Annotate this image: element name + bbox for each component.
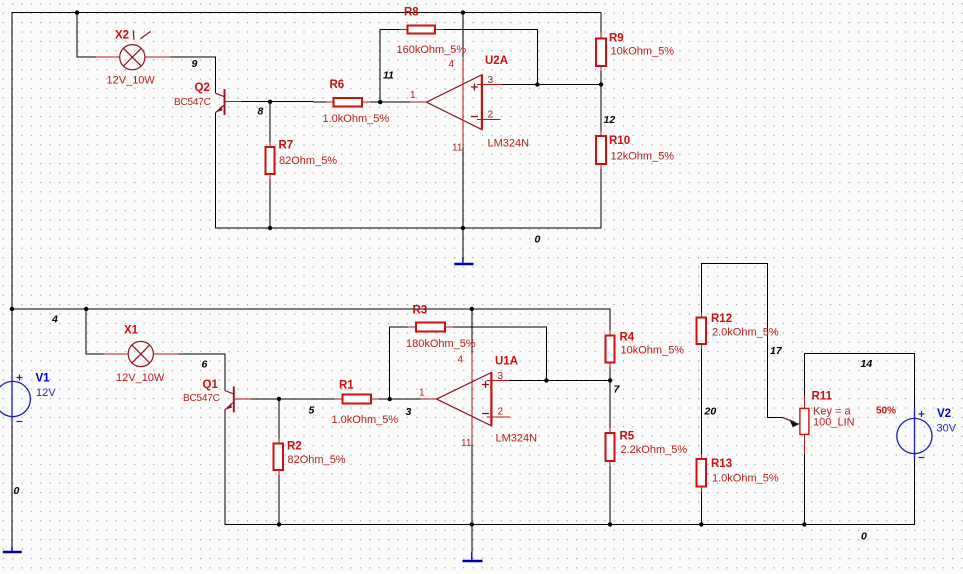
op-amp U2A <box>410 57 501 148</box>
wire X2 branch vertical <box>77 13 96 58</box>
node junction pot bottom <box>802 522 806 526</box>
svg-text:BC547C: BC547C <box>174 97 211 108</box>
svg-text:Q1: Q1 <box>203 379 219 391</box>
wire node 14 pot top to V2 <box>804 353 914 408</box>
transistor Q2 <box>216 89 242 115</box>
svg-text:14: 14 <box>861 358 873 370</box>
ground top circuit <box>454 228 473 264</box>
wire U2A power bottom pin11 <box>462 148 464 258</box>
svg-text:2: 2 <box>498 407 504 418</box>
wire R12 top corner to wiper line <box>701 264 782 418</box>
svg-text:R1: R1 <box>339 380 354 392</box>
wire Q1 emitter down <box>225 410 279 525</box>
lamp X2 <box>96 30 171 70</box>
wire R7 bottom <box>269 179 271 228</box>
node junction top-left lamp branch <box>75 10 79 14</box>
svg-text:3: 3 <box>498 371 504 382</box>
resistor R1 <box>335 395 379 404</box>
wire R4 top <box>609 309 611 330</box>
node junction mid rail V1 <box>10 307 14 311</box>
wire R7 top <box>269 102 271 142</box>
wire R9 top <box>600 13 602 34</box>
svg-text:R4: R4 <box>620 332 635 344</box>
svg-text:10kOhm_5%: 10kOhm_5% <box>621 345 685 357</box>
svg-text:3: 3 <box>406 406 412 418</box>
node 12 junction <box>599 82 603 86</box>
svg-text:R7: R7 <box>279 140 294 152</box>
svg-text:R8: R8 <box>404 7 419 19</box>
wire R3 left leg <box>390 327 408 399</box>
node junction R3 output <box>544 378 548 382</box>
potentiometer R11 <box>782 395 809 454</box>
resistor R3 <box>408 323 453 332</box>
resistor R10 <box>596 131 606 169</box>
node 5 junction <box>277 397 281 401</box>
svg-text:LM324N: LM324N <box>488 138 530 150</box>
ground left under V1 <box>3 546 22 552</box>
svg-text:17: 17 <box>770 345 783 357</box>
svg-text:12V_10W: 12V_10W <box>107 75 156 87</box>
wire mid rail <box>12 309 610 330</box>
svg-text:V1: V1 <box>36 373 51 385</box>
wire bottom rail <box>279 459 914 524</box>
resistor R8 <box>400 26 444 34</box>
svg-text:30V: 30V <box>937 423 957 435</box>
wire U2A power top pin4 <box>462 13 464 57</box>
node junction R5 bottom <box>608 522 612 526</box>
svg-text:4: 4 <box>449 59 455 70</box>
node 8 junction <box>268 100 272 104</box>
svg-text:R9: R9 <box>609 33 624 45</box>
source V2 <box>897 408 932 459</box>
resistor R12 <box>696 312 706 349</box>
svg-text:U2A: U2A <box>485 55 508 67</box>
wire pot bottom lead <box>803 454 805 524</box>
svg-text:11: 11 <box>383 70 394 82</box>
svg-text:180kOhm_5%: 180kOhm_5% <box>406 338 476 350</box>
resistor R9 <box>596 33 606 71</box>
node junction U1A vcc <box>470 307 474 311</box>
svg-text:R6: R6 <box>330 79 345 91</box>
svg-text:0: 0 <box>535 234 541 246</box>
wire R2 bottom <box>278 475 280 524</box>
svg-text:BC547C: BC547C <box>183 393 220 404</box>
resistor R13 <box>696 454 706 492</box>
wire U1A power bottom pin11 <box>471 444 473 552</box>
svg-text:R12: R12 <box>711 313 732 325</box>
wire X2 to Q2 collector <box>171 57 216 93</box>
svg-text:12kOhm_5%: 12kOhm_5% <box>611 151 675 163</box>
svg-text:X1: X1 <box>124 325 139 337</box>
svg-text:82Ohm_5%: 82Ohm_5% <box>279 155 337 167</box>
node junction R7 bottom rail <box>268 226 272 230</box>
svg-text:2.2kOhm_5%: 2.2kOhm_5% <box>621 444 688 456</box>
svg-text:LM324N: LM324N <box>496 433 538 445</box>
svg-text:11: 11 <box>452 143 463 154</box>
svg-text:Q2: Q2 <box>195 82 210 94</box>
svg-text:1.0kOhm_5%: 1.0kOhm_5% <box>323 113 390 125</box>
wire R3 right leg to output node <box>453 327 547 380</box>
node 3 junction <box>388 397 392 401</box>
wire Q2 emitter down <box>216 112 271 228</box>
svg-text:R11: R11 <box>812 391 833 403</box>
node junction ground bottom <box>470 522 474 526</box>
wire U2A pin3 to R9 node <box>501 84 601 86</box>
wire U1A pin3 to node 7 <box>509 379 610 381</box>
node 7 junction <box>608 378 612 382</box>
resistor R6 <box>326 98 371 106</box>
wire R8 right leg to output node <box>443 30 537 85</box>
wire U1A power top pin4 <box>471 309 473 354</box>
node junction R2 bottom <box>277 522 281 526</box>
svg-text:R3: R3 <box>413 305 428 317</box>
svg-text:4: 4 <box>51 314 58 326</box>
resistor R4 <box>606 330 615 367</box>
wire top rail <box>12 13 601 309</box>
svg-text:R5: R5 <box>620 431 635 443</box>
svg-text:82Ohm_5%: 82Ohm_5% <box>288 454 346 466</box>
svg-text:R13: R13 <box>711 458 732 470</box>
wire pot top lead <box>803 353 805 395</box>
wire node1 to opamp U2A output <box>371 101 410 103</box>
svg-text:3: 3 <box>488 75 494 86</box>
svg-text:100_LIN: 100_LIN <box>813 417 855 429</box>
node junction U2A vcc <box>461 10 465 14</box>
wire R4 bottom node7 <box>609 367 611 428</box>
svg-text:R10: R10 <box>609 135 630 147</box>
node junction X1 branch <box>84 307 88 311</box>
wire R13 bottom <box>700 492 702 525</box>
svg-text:12V: 12V <box>36 387 56 399</box>
wire R5 bottom <box>609 466 611 525</box>
lamp X1 <box>104 341 179 366</box>
svg-text:50%: 50% <box>876 406 896 417</box>
svg-text:10kOhm_5%: 10kOhm_5% <box>611 46 675 58</box>
svg-text:1: 1 <box>410 90 416 101</box>
transistor Q1 <box>225 387 251 413</box>
svg-text:160kOhm_5%: 160kOhm_5% <box>397 44 467 56</box>
svg-text:1: 1 <box>419 388 425 399</box>
source V1 <box>0 375 30 423</box>
wire Q2 base to node 8 <box>242 101 327 103</box>
wire R8 left leg <box>380 30 399 103</box>
svg-text:4: 4 <box>458 355 464 366</box>
resistor R5 <box>606 428 615 466</box>
wire X1 branch <box>86 309 103 354</box>
resistor R2 <box>274 439 283 476</box>
svg-text:V2: V2 <box>937 408 951 420</box>
svg-text:6: 6 <box>202 359 208 371</box>
svg-text:0: 0 <box>861 531 867 543</box>
wire R2 top <box>278 399 280 439</box>
svg-text:X2: X2 <box>115 30 129 42</box>
ground bottom circuit <box>463 552 483 561</box>
svg-text:R2: R2 <box>287 441 302 453</box>
node junction R13 bottom <box>699 522 703 526</box>
resistor R7 <box>265 142 274 179</box>
svg-text:5: 5 <box>309 405 315 417</box>
svg-text:U1A: U1A <box>495 356 518 368</box>
svg-text:2: 2 <box>488 110 494 121</box>
wire V1 top lead <box>11 309 13 376</box>
wire bottom rail top circuit <box>270 169 601 228</box>
wire Q1 base to node 5 <box>251 398 335 400</box>
wire node3 to opamp U1A output <box>379 398 421 400</box>
svg-text:12: 12 <box>604 114 616 126</box>
svg-text:9: 9 <box>192 58 198 70</box>
wire X1 to Q1 collector <box>178 354 224 391</box>
wire R12 to R13 net 20 <box>700 349 702 454</box>
node 1 junction <box>378 100 382 104</box>
svg-text:20: 20 <box>704 406 717 418</box>
op-amp U1A <box>421 354 510 445</box>
svg-text:1.0kOhm_5%: 1.0kOhm_5% <box>332 414 399 426</box>
wire V1 bottom to ground <box>11 422 13 546</box>
svg-text:8: 8 <box>258 106 264 118</box>
wire R9 bottom to node 12 <box>600 71 602 131</box>
svg-text:12V_10W: 12V_10W <box>116 372 165 384</box>
svg-text:11: 11 <box>461 438 472 449</box>
svg-text:0: 0 <box>14 485 20 497</box>
svg-text:1.0kOhm_5%: 1.0kOhm_5% <box>712 473 779 485</box>
node junction ground top circuit <box>461 226 465 230</box>
node junction R8 output <box>535 82 539 86</box>
svg-text:2.0kOhm_5%: 2.0kOhm_5% <box>712 327 779 339</box>
